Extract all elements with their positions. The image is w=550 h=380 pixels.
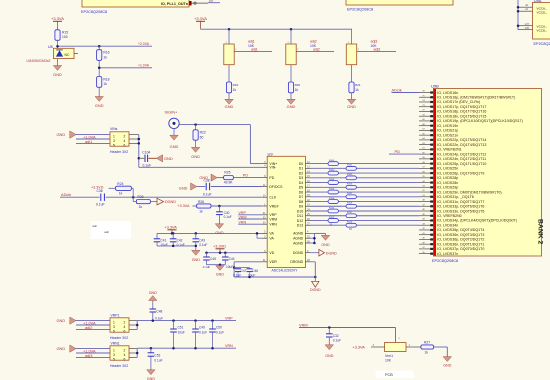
svg-text:IO, LVDS24p, DQ1T3/DQ1T12: IO, LVDS24p, DQ1T3/DQ1T12 <box>437 152 486 156</box>
svg-text:GND: GND <box>191 154 200 159</box>
svg-text:IO, LVDS37n: IO, LVDS37n <box>437 252 458 256</box>
svg-text:DGND: DGND <box>310 288 321 292</box>
label adj1 10K <box>248 40 255 49</box>
svg-text:IO, LVDS21n: IO, LVDS21n <box>437 133 458 137</box>
svg-text:CLK: CLK <box>269 196 276 200</box>
svg-text:ADC14L020CIVY: ADC14L020CIVY <box>272 268 299 272</box>
resistor R24 1k <box>109 182 134 197</box>
svg-text:R24: R24 <box>117 182 123 186</box>
svg-text:ADclk: ADclk <box>61 192 71 197</box>
svg-text:adj2: adj2 <box>310 40 317 44</box>
capacitor C43 0.1uF <box>193 233 208 250</box>
svg-text:C48: C48 <box>156 309 162 313</box>
svg-text:D11: D11 <box>297 214 303 218</box>
svg-text:4: 4 <box>124 139 126 143</box>
svg-text:D3: D3 <box>299 176 304 180</box>
wire DRGND down <box>311 262 316 277</box>
FPGA U5B body <box>433 89 541 257</box>
ground below C32 <box>325 337 334 358</box>
svg-text:GND: GND <box>225 104 234 109</box>
ground below R18 <box>95 87 104 108</box>
svg-text:IO, LVDS35p, DQ0T4/DQ1T4: IO, LVDS35p, DQ0T4/DQ1T4 <box>437 228 484 232</box>
potentiometer Vrm1 10K <box>385 343 407 352</box>
svg-text:1k: 1k <box>295 88 299 92</box>
svg-text:C46: C46 <box>252 269 258 273</box>
resistor R26 1k <box>193 200 212 214</box>
svg-text:VD: VD <box>269 251 274 255</box>
net adj1 at VINs pin5 <box>76 139 110 144</box>
node +2.0VA wire <box>56 42 152 48</box>
sheet tab PCB <box>375 371 413 378</box>
svg-text:+2.0VA: +2.0VA <box>138 42 150 46</box>
svg-text:IO, LVDS34n: IO, LVDS34n <box>437 223 458 227</box>
svg-text:R107: R107 <box>347 193 353 195</box>
ground label at VINs pin1 <box>57 131 111 138</box>
capacitor C38 0.1uF <box>203 179 212 197</box>
svg-text:VRP: VRP <box>225 317 233 321</box>
ground label at R25 <box>199 174 217 181</box>
svg-text:3: 3 <box>113 139 115 143</box>
svg-text:VRN: VRN <box>225 344 233 348</box>
svg-text:1k: 1k <box>103 55 107 59</box>
ground below C40 <box>215 215 224 235</box>
capacitor C47 plates <box>233 268 247 278</box>
header VRP1 Header 3X2 <box>110 313 129 340</box>
capacitor C44 10uF <box>222 253 235 270</box>
svg-text:IO, LVDS25p, DQ1T1/DQ1T10: IO, LVDS25p, DQ1T1/DQ1T10 <box>437 162 486 166</box>
svg-text:R108: R108 <box>329 198 335 200</box>
svg-text:GND: GND <box>95 103 104 108</box>
designator EP2C8Q208C8 bottom <box>432 259 458 263</box>
svg-text:IO, LVDS31p, _DQ1T8: IO, LVDS31p, _DQ1T8 <box>437 195 474 199</box>
pin 135 wire <box>518 26 533 30</box>
svg-text:VINs: VINs <box>110 127 118 131</box>
capacitor C41 10uF <box>154 233 168 247</box>
potentiometer adj2 10K <box>286 29 300 64</box>
svg-text:R106: R106 <box>329 188 335 190</box>
svg-text:IO, LVDS19n: IO, LVDS19n <box>437 124 458 128</box>
wire VRM to pot wiper <box>396 328 401 343</box>
wire R25 to ADC PD <box>233 173 262 177</box>
wire VINs to ADC VIN- <box>139 166 262 168</box>
digital ground DGND bottom <box>310 277 321 292</box>
resistor R18 <box>97 77 110 88</box>
label adj2 10K <box>310 40 317 49</box>
svg-text:2: 2 <box>124 134 126 138</box>
svg-text:R103: R103 <box>347 174 353 176</box>
svg-text:adc: adc <box>104 230 109 234</box>
svg-text:VIN-: VIN- <box>269 166 277 170</box>
wire VA rail <box>157 232 267 235</box>
svg-text:C104: C104 <box>142 150 150 154</box>
svg-text:R113: R113 <box>347 222 353 224</box>
svg-text:C40: C40 <box>224 211 230 215</box>
svg-text:0.1uF: 0.1uF <box>155 316 163 320</box>
svg-text:C42: C42 <box>177 238 183 242</box>
svg-text:EP2C8Q2: EP2C8Q2 <box>534 42 550 46</box>
net VRN wire to ADC <box>238 221 262 225</box>
svg-text:+3.3VD: +3.3VD <box>91 185 104 189</box>
designator U8 <box>48 45 53 49</box>
wires D0-D13 to FPGA <box>311 164 420 226</box>
svg-text:R19: R19 <box>233 83 239 87</box>
svg-text:VREF: VREF <box>269 204 278 208</box>
svg-text:D1: D1 <box>299 167 304 171</box>
svg-text:0.1uF: 0.1uF <box>154 358 162 362</box>
svg-text:DF/DCS: DF/DCS <box>269 185 283 189</box>
svg-text:3: 3 <box>113 353 115 357</box>
resistor R30 1k <box>133 195 157 209</box>
series resistors R100-R113 33ohm <box>328 160 356 227</box>
svg-text:DGND: DGND <box>293 251 304 255</box>
svg-text:C50: C50 <box>216 325 222 329</box>
wire SIGIN+ to ADC VIN+ <box>179 123 262 163</box>
svg-text:C45: C45 <box>210 257 216 261</box>
svg-text:0.1uF: 0.1uF <box>199 330 207 334</box>
svg-text:R109: R109 <box>347 203 353 205</box>
ground below R22 <box>191 140 200 159</box>
svg-text:GND: GND <box>57 318 66 323</box>
net +3.3VA at Vrm1 <box>352 344 384 350</box>
power +3.3VA (top-left) <box>51 16 64 30</box>
svg-text:C44: C44 <box>229 257 235 261</box>
svg-text:+3.3VA: +3.3VA <box>164 224 177 229</box>
wires VINs right pins <box>129 135 140 168</box>
capacitor C50 0.1uF <box>209 321 224 349</box>
svg-text:R26: R26 <box>198 200 204 204</box>
svg-text:adj3: adj3 <box>371 40 378 44</box>
ground below R20 <box>287 93 296 109</box>
capacitor C45 0.1uF <box>203 253 216 270</box>
svg-text:GND: GND <box>347 104 356 109</box>
svg-text:D8: D8 <box>299 200 304 204</box>
svg-text:ADclk: ADclk <box>392 87 402 92</box>
svg-text:0.1uF: 0.1uF <box>96 203 105 207</box>
junction dots on VCC bus <box>517 6 520 27</box>
svg-text:GND: GND <box>57 346 66 351</box>
svg-text:VDR: VDR <box>269 260 277 264</box>
svg-text:0.1uF: 0.1uF <box>333 339 341 343</box>
net adj2 at VRP1 pin5 <box>76 325 110 330</box>
value 33 labels <box>330 223 353 231</box>
svg-text:C47: C47 <box>241 269 247 273</box>
svg-text:R21: R21 <box>355 83 361 87</box>
wire wiper net adj1 <box>238 48 272 52</box>
ADC U9 AGND DGND DRGND pins <box>290 231 310 264</box>
capacitor C48 0.1uF <box>150 309 164 321</box>
wire cap bottom rail <box>157 245 197 248</box>
svg-text:GND: GND <box>179 185 188 190</box>
svg-text:R15: R15 <box>62 30 68 34</box>
svg-text:AGND: AGND <box>293 241 304 245</box>
svg-text:50: 50 <box>200 135 204 139</box>
FPGA fragment (top-center) <box>346 0 453 5</box>
svg-text:10K: 10K <box>385 359 392 363</box>
svg-text:R104: R104 <box>329 179 335 181</box>
svg-text:R30: R30 <box>138 195 144 199</box>
svg-text:+3.3VD: +3.3VD <box>213 243 226 248</box>
svg-text:100: 100 <box>62 35 68 39</box>
wire +3.3VA bus to pots <box>201 28 353 31</box>
svg-text:R22: R22 <box>200 131 206 135</box>
svg-text:D9: D9 <box>299 205 304 209</box>
wire GND to ADC DF/DCS <box>197 186 262 188</box>
wire wiper net adj3 <box>361 48 397 52</box>
svg-text:U8: U8 <box>48 45 53 49</box>
svg-text:adj2: adj2 <box>313 48 320 52</box>
header VRN1 Header 3X2 <box>110 342 129 368</box>
svg-text:PD: PD <box>269 176 274 180</box>
svg-text:IO, LVDS17p, DQ1T9/DQ1T17: IO, LVDS17p, DQ1T9/DQ1T17 <box>437 105 486 109</box>
svg-text:0.1uF: 0.1uF <box>216 330 224 334</box>
svg-text:R110: R110 <box>329 207 335 209</box>
svg-text:IO, PLL1_OUTn: IO, PLL1_OUTn <box>161 2 189 6</box>
power +3.3VA at ADC VA <box>164 224 177 233</box>
svg-text:1k: 1k <box>103 82 107 86</box>
svg-text:IO, LVDS26p, DQ1T0/DQ1T9: IO, LVDS26p, DQ1T0/DQ1T9 <box>437 171 484 175</box>
net +1.0VA at VRP1 pin3 <box>76 321 110 326</box>
wire pot bottom to R20 <box>290 65 292 82</box>
svg-text:R16: R16 <box>103 51 109 55</box>
net adj3 at VRN1 pin5 <box>76 353 110 358</box>
svg-text:5: 5 <box>113 329 115 333</box>
svg-text:10uF: 10uF <box>178 330 185 334</box>
ADC U9 data pins D0-D13 <box>297 161 311 228</box>
svg-text:IO, LVDS36p, DQ0T2/DQ1T2: IO, LVDS36p, DQ0T2/DQ1T2 <box>437 238 484 242</box>
svg-text:VRP1: VRP1 <box>111 313 120 317</box>
wires VRN1 right pins <box>129 349 138 358</box>
label BANK 2 <box>537 219 544 245</box>
svg-text:PCB: PCB <box>385 373 393 377</box>
svg-text:U9: U9 <box>268 151 274 156</box>
connector SIGIN+ <box>165 109 180 128</box>
svg-text:+3.3VA: +3.3VA <box>352 344 365 349</box>
svg-text:GND: GND <box>287 104 296 109</box>
svg-text:0.1uF: 0.1uF <box>177 243 185 247</box>
svg-text:R25: R25 <box>224 171 230 175</box>
net label ADclk (left) <box>61 192 71 197</box>
designator U9 <box>268 151 274 156</box>
svg-text:C41: C41 <box>161 238 167 242</box>
svg-text:R112: R112 <box>329 217 335 219</box>
svg-text:10uF: 10uF <box>161 243 168 247</box>
potentiometer adj1 10K <box>224 29 238 64</box>
svg-text:D5: D5 <box>299 186 304 190</box>
value ADC14L020CIVY <box>272 268 299 272</box>
ground below R21 <box>347 93 356 109</box>
svg-text:1k: 1k <box>139 205 143 209</box>
svg-text:D6: D6 <box>299 190 304 194</box>
capacitor C32 0.1uF <box>326 328 341 343</box>
svg-text:R101: R101 <box>347 165 353 167</box>
svg-text:D12: D12 <box>297 219 303 223</box>
net ADclk wire to FPGA <box>392 87 420 92</box>
svg-text:2: 2 <box>124 348 126 352</box>
svg-text:+3.3VA: +3.3VA <box>194 16 207 21</box>
svg-text:GND: GND <box>57 132 66 137</box>
svg-text:Header 3X2: Header 3X2 <box>110 364 128 368</box>
svg-text:5: 5 <box>113 357 115 361</box>
svg-text:IO, LVDS22n, DQ1T4/DQ1T13: IO, LVDS22n, DQ1T4/DQ1T13 <box>437 143 486 147</box>
svg-text:VCCD_: VCCD_ <box>537 29 548 33</box>
resistor R22 50 <box>193 125 206 141</box>
svg-text:IO, LVDS16n: IO, LVDS16n <box>437 91 458 95</box>
svg-text:IO, LVDS33p, DQ0T6/DQ1T6: IO, LVDS33p, DQ0T6/DQ1T6 <box>437 205 484 209</box>
resistor R16 <box>97 46 110 60</box>
svg-text:GND: GND <box>443 363 452 367</box>
wire AGND bus <box>311 233 326 244</box>
svg-text:R20: R20 <box>295 83 301 87</box>
svg-text:1k: 1k <box>355 88 359 92</box>
svg-text:AGND: AGND <box>293 237 304 241</box>
svg-text:49.9K: 49.9K <box>224 181 234 185</box>
svg-text:GND: GND <box>216 273 225 277</box>
wire VCC vertical bus <box>517 0 519 30</box>
svg-text:IO, LVDS22p, DQ1T5/DQ1T14: IO, LVDS22p, DQ1T5/DQ1T14 <box>437 138 486 142</box>
svg-text:R17: R17 <box>209 0 214 3</box>
svg-text:6: 6 <box>124 329 126 333</box>
net VRM wire to ADC <box>238 215 262 219</box>
svg-text:VA: VA <box>269 232 274 236</box>
svg-text:0.1uF: 0.1uF <box>203 192 212 196</box>
net VRN rail <box>137 344 236 349</box>
diode U8 LM4050 <box>54 48 79 58</box>
wire wiper net adj2 <box>300 48 334 52</box>
svg-text:U5A: U5A <box>534 0 542 3</box>
svg-text:IO, LVDS29n, DM0T(DM1T0/BWS#1T: IO, LVDS29n, DM0T(DM1T0/BWS#1T0) <box>437 190 501 194</box>
svg-text:R102: R102 <box>329 169 335 171</box>
potentiometer adj3 10K <box>346 29 360 64</box>
ground at AGND <box>321 233 330 247</box>
wire VD cap bottom rail <box>207 263 226 266</box>
ground below C44 <box>216 265 225 277</box>
note adc tooltip box <box>91 221 131 239</box>
svg-text:GND: GND <box>192 258 201 262</box>
svg-text:DRGND: DRGND <box>290 260 303 264</box>
svg-text:IO, LVDS37p, DQ0T0/DQ1T0: IO, LVDS37p, DQ0T0/DQ1T0 <box>437 247 484 251</box>
svg-text:137: 137 <box>525 22 530 26</box>
svg-text:D0: D0 <box>299 162 304 166</box>
svg-text:VRN: VRN <box>269 223 277 227</box>
svg-text:R27: R27 <box>424 341 430 345</box>
svg-text:C51: C51 <box>178 325 184 329</box>
designator U5B <box>431 84 439 89</box>
FPGA fragment U5 part A (top-left) <box>82 0 189 7</box>
svg-text:R18: R18 <box>103 77 109 81</box>
svg-text:GND: GND <box>170 144 179 149</box>
capacitor C46 10uF <box>244 268 258 278</box>
svg-text:VRM: VRM <box>269 217 277 221</box>
FPGA U5B pin names <box>437 91 523 256</box>
svg-text:EP2C8Q208C8: EP2C8Q208C8 <box>347 8 373 12</box>
digital ground DGND at pin9 <box>311 249 337 256</box>
pin 42 wire <box>518 3 533 7</box>
svg-text:+3.3VA: +3.3VA <box>178 204 190 208</box>
svg-text:IO, LVDS29p: IO, LVDS29p <box>437 186 458 190</box>
svg-text:IO, LVDS28n: IO, LVDS28n <box>437 181 458 185</box>
svg-text:3: 3 <box>113 325 115 329</box>
svg-text:C43: C43 <box>199 238 205 242</box>
pin 41 wire <box>518 7 533 11</box>
capacitor C53 0.1uF <box>148 348 163 362</box>
capacitor C42 0.1uF <box>170 233 185 247</box>
label adj3 10K <box>371 40 378 49</box>
svg-text:adj1: adj1 <box>251 48 258 52</box>
svg-text:10uF: 10uF <box>226 265 233 269</box>
svg-text:C49: C49 <box>199 325 205 329</box>
svg-text:IO, LVDS25n: IO, LVDS25n <box>437 167 458 171</box>
designator Vrm1 <box>385 354 393 363</box>
ground label at C104 <box>148 155 172 162</box>
svg-text:4: 4 <box>124 353 126 357</box>
ground label at DF/DCS <box>179 183 197 191</box>
pin names VCCA/VCCD <box>537 6 548 32</box>
wire R15 to U8 <box>57 40 59 48</box>
svg-text:C36: C36 <box>97 189 103 193</box>
svg-text:0.1uF: 0.1uF <box>224 215 232 219</box>
svg-text:IO, LVDS33n, DQ0T5/DQ1T5: IO, LVDS33n, DQ0T5/DQ1T5 <box>437 209 484 213</box>
wire pot bottom to R19 <box>228 65 230 82</box>
value LM4050CIM3x2 <box>27 59 51 63</box>
svg-text:IO, LVDS21p: IO, LVDS21p <box>437 129 458 133</box>
svg-text:1: 1 <box>113 134 115 138</box>
wire pot bottom to R21 <box>351 65 353 82</box>
svg-text:Header 3X2: Header 3X2 <box>110 150 128 154</box>
svg-text:IO, LVDS36n, DQ0T1/DQ1T1: IO, LVDS36n, DQ0T1/DQ1T1 <box>437 242 484 246</box>
power +3.3VA feeding pots <box>194 16 207 29</box>
pin PLL1_OUT stub and pad <box>189 1 208 5</box>
svg-text:0.1uF: 0.1uF <box>203 265 211 269</box>
svg-text:IO, VREFB2N1: IO, VREFB2N1 <box>437 148 461 152</box>
net PD wire to FPGA <box>389 149 419 154</box>
svg-text:D2: D2 <box>299 171 304 175</box>
svg-text:VCCD_: VCCD_ <box>537 10 548 14</box>
svg-text:GND: GND <box>53 72 62 77</box>
svg-text:IO, LVDS34p, (DPCLK4/DQS0T)(DP: IO, LVDS34p, (DPCLK4/DQS0T)(DPCLK/DQS0T) <box>437 219 517 223</box>
wire ADclk to ADC CLK <box>60 196 262 199</box>
svg-text:5: 5 <box>113 143 115 147</box>
ground below R19 <box>225 93 234 109</box>
designator EP2C8Q208C8 under top-left box <box>81 10 107 14</box>
designator EP2C8Q208C8 under top-center box <box>347 8 373 12</box>
svg-text:GND: GND <box>321 243 330 247</box>
svg-text:6: 6 <box>124 143 126 147</box>
svg-text:1k: 1k <box>233 88 237 92</box>
svg-text:R111: R111 <box>347 212 353 214</box>
svg-text:0.1uF: 0.1uF <box>199 243 207 247</box>
svg-text:1: 1 <box>113 320 115 324</box>
svg-text:IO, LVDS31n, DQ0T7/DQ1T7: IO, LVDS31n, DQ0T7/DQ1T7 <box>437 200 484 204</box>
wire R26 to ADC VREF <box>211 205 262 208</box>
svg-text:C32: C32 <box>333 334 339 338</box>
net +3.3VA at R26 <box>178 204 190 208</box>
resistor R15 <box>55 30 68 41</box>
FPGA U5B pin stubs pads and numbers <box>419 91 433 255</box>
svg-text:R100: R100 <box>329 160 335 162</box>
svg-text:IO, LVDS35n, DQ0T3/DQ1T3: IO, LVDS35n, DQ0T3/DQ1T3 <box>437 233 484 237</box>
svg-text:EP2C8Q208C8: EP2C8Q208C8 <box>432 259 458 263</box>
svg-text:4: 4 <box>124 325 126 329</box>
svg-text:1k: 1k <box>199 210 203 214</box>
ground below C53 <box>147 356 156 380</box>
svg-text:D7: D7 <box>299 195 304 199</box>
svg-text:+3.3VA: +3.3VA <box>51 16 64 21</box>
svg-text:IO, LVDS16p, (DM1T/BWS#1T)(DM1: IO, LVDS16p, (DM1T/BWS#1T)(DM1T/BWS#1T) <box>437 95 515 99</box>
svg-text:GND: GND <box>325 354 334 358</box>
svg-text:D4: D4 <box>299 181 304 185</box>
resistor R27 1k <box>406 341 434 355</box>
power +3.3VD label at R24 <box>91 185 104 189</box>
